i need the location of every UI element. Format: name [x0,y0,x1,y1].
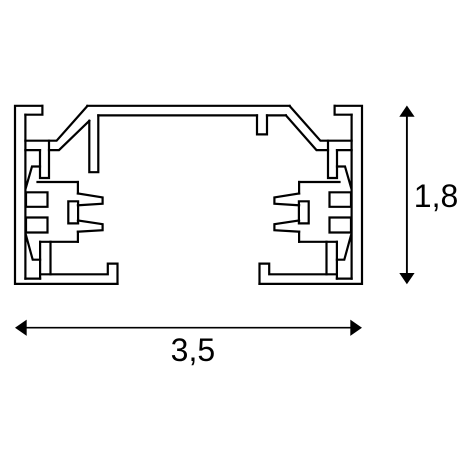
right clip 1 [337,167,351,189]
right clip 2 [337,235,351,260]
insert right edge lower [77,232,79,242]
right tongue slot [328,141,337,178]
right tooth 1 [330,192,352,207]
height dimension top arrowhead [399,106,414,117]
left ledge and outer diagonal web [25,106,87,141]
svg-text:1,8: 1,8 [414,178,458,214]
right contact horn 1 [274,194,299,206]
outer shell right wall and bottom [260,106,363,284]
right inner bottom and slot lip [260,264,337,284]
outer shell left wall and bottom [15,106,118,284]
width dimension left arrowhead [15,320,27,336]
right tooth 2 [330,218,352,233]
width dimension line [25,327,352,329]
right contact horn 2 [274,221,299,232]
height dimension bottom arrowhead [399,273,414,284]
insert bottom [40,241,78,243]
right insert top [299,181,339,183]
clip 1 [26,167,40,189]
left inner wall [24,115,26,279]
left ledge2 [25,149,40,151]
top plate inner surface left segment [98,114,257,116]
right insert edge upper [298,182,300,194]
clip 2 [26,235,40,260]
left tongue slot [40,141,49,178]
width dimension right arrowhead [350,320,362,336]
right insert bottom [299,241,337,243]
conductor rectangle [68,201,78,223]
svg-text:3,5: 3,5 [171,332,215,368]
top plate outer surface [87,105,289,107]
right bottom floor ledge [337,278,352,280]
left flange tip and underside [25,106,42,115]
left bottom tongue vertical A [39,242,41,279]
right bottom tongue vertical B [325,242,327,274]
earth key tab [257,115,267,134]
right inner wall [351,115,353,279]
right conductor rectangle [299,201,309,223]
right flange tip and underside [335,106,352,115]
top plate inner surface right segment [267,114,286,116]
left bottom floor ledge [25,278,40,280]
right inner diagonal [286,115,328,150]
left inner diagonal to fin [49,121,89,150]
tooth 1 [26,192,48,207]
left bottom tongue vertical B [49,242,51,274]
height dimension line [406,114,408,276]
right ledge2 [337,149,352,151]
right half of track profile shell (mirrored) [260,106,363,284]
left half of track profile shell [15,106,118,284]
tooth 2 [26,218,48,233]
insert top [38,181,78,183]
right bottom tongue vertical A [336,242,338,279]
insert right edge upper [77,182,79,194]
contact horn 2 [78,221,103,232]
contact horn 1 [78,194,103,206]
right ledge and outer diagonal web [290,106,352,141]
hanging fin [89,115,98,172]
left inner bottom and slot lip [40,264,117,284]
right insert edge lower [298,232,300,242]
